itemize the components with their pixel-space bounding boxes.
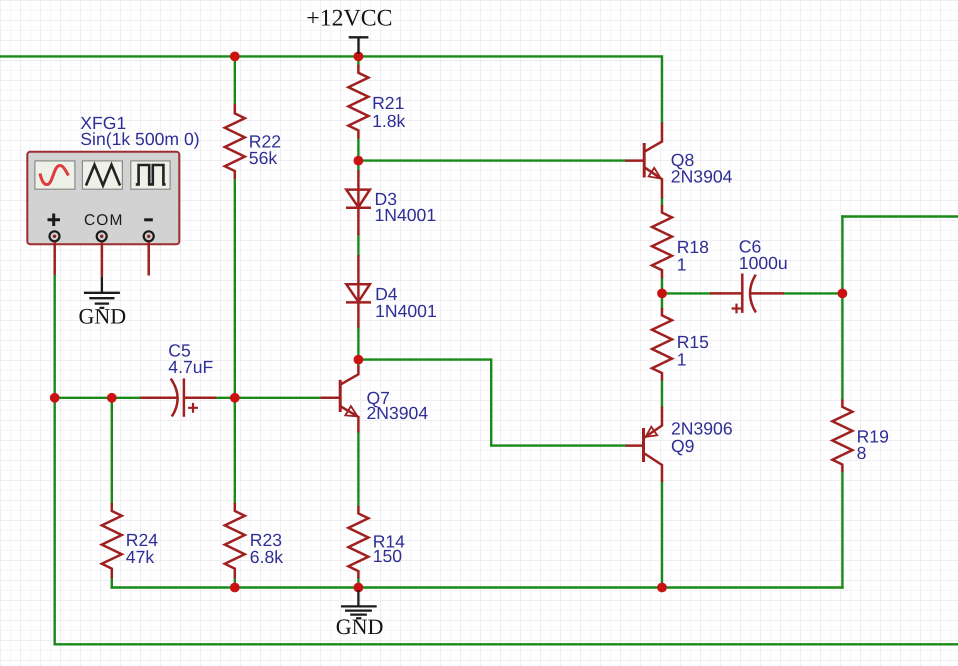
wire R24 bottom corner bbox=[111, 398, 113, 503]
wire D4 cathode to node B bbox=[357, 328, 359, 360]
svg-text:1000u: 1000u bbox=[739, 253, 788, 273]
svg-text:2N3904: 2N3904 bbox=[367, 403, 429, 423]
wire Q7 emitter to R14 bbox=[357, 432, 359, 506]
wire node A to D3 anode bbox=[357, 161, 359, 171]
svg-text:1: 1 bbox=[677, 349, 687, 369]
junction node C bbox=[230, 393, 240, 403]
diode D4 bbox=[357, 255, 360, 302]
wire mid ground rail bbox=[112, 586, 843, 588]
junction node D bbox=[657, 289, 667, 299]
resistor R21 bbox=[348, 65, 368, 139]
wire XFG1 plus lead bbox=[53, 242, 56, 275]
svg-text:1.8k: 1.8k bbox=[372, 111, 405, 131]
transistor Q9 bbox=[626, 407, 662, 482]
resistor R19 bbox=[832, 400, 852, 472]
wire node E output column bbox=[841, 217, 843, 400]
svg-text:4.7uF: 4.7uF bbox=[168, 357, 213, 377]
svg-text:56k: 56k bbox=[249, 148, 278, 168]
svg-text:R21: R21 bbox=[372, 93, 404, 113]
svg-text:Sin(1k 500m 0): Sin(1k 500m 0) bbox=[80, 129, 199, 149]
wire Q7 base to C5 node bbox=[235, 397, 321, 399]
wire node B to Q7 collector bbox=[357, 360, 359, 366]
svg-text:6.8k: 6.8k bbox=[250, 547, 283, 567]
transistor Q8 bbox=[625, 123, 662, 199]
junction R23 bottom bbox=[230, 583, 240, 593]
svg-text:1N4001: 1N4001 bbox=[375, 205, 437, 225]
wire output to right edge bbox=[842, 215, 958, 217]
power +12VCC symbol bbox=[349, 37, 369, 54]
svg-text:COM: COM bbox=[84, 212, 123, 229]
wire node D to R15 bbox=[661, 293, 663, 308]
junction R24 top bbox=[107, 393, 117, 403]
function generator XFG1 bbox=[27, 152, 179, 245]
wire node C to R23 bbox=[234, 398, 236, 503]
wire R24 to mid rail bbox=[111, 579, 113, 588]
wire left drop and bottom rail bbox=[55, 398, 958, 645]
wire R18 to node D bbox=[661, 278, 663, 293]
junction input node bbox=[50, 393, 60, 403]
ground GND bottom symbol bbox=[341, 590, 377, 618]
wire VCC stub to R21 bbox=[357, 56, 359, 64]
capacitor C6 bbox=[710, 274, 784, 314]
svg-text:Q9: Q9 bbox=[671, 436, 694, 456]
resistor R15 bbox=[652, 308, 672, 381]
wire input node to C5 bbox=[55, 397, 141, 399]
svg-text:GND: GND bbox=[79, 304, 127, 329]
svg-text:GND: GND bbox=[336, 614, 384, 639]
resistor R24 bbox=[102, 503, 122, 579]
wire C5 to node C bbox=[216, 397, 235, 399]
svg-text:2N3904: 2N3904 bbox=[671, 167, 733, 187]
capacitor C5 bbox=[140, 378, 216, 416]
resistor R23 bbox=[225, 503, 245, 579]
wire Q9 collector down bbox=[661, 482, 663, 588]
junction R14 bottom bbox=[354, 583, 364, 593]
wire node D to C6 bbox=[662, 292, 710, 294]
junction node E bbox=[838, 289, 848, 299]
wire R21 to node A bbox=[357, 139, 359, 161]
wire C6 to node E bbox=[784, 292, 842, 294]
resistor R18 bbox=[652, 205, 672, 278]
wire XFG1 plus drop bbox=[54, 275, 56, 398]
wire node B to Q9 base bbox=[358, 360, 625, 446]
svg-text:47k: 47k bbox=[126, 547, 155, 567]
wire Q8 emitter to R18 bbox=[661, 198, 663, 205]
resistor R22 bbox=[225, 104, 245, 179]
resistor R14 bbox=[348, 506, 368, 579]
wire VCC top rail bbox=[0, 56, 662, 122]
junction Q9 collector bottom bbox=[657, 583, 667, 593]
wire R22 bottom to node C bbox=[234, 179, 236, 398]
diode D3 bbox=[357, 170, 360, 208]
wire R15 to Q9 emitter bbox=[661, 381, 663, 407]
transistor Q7 bbox=[320, 366, 358, 433]
ground GND under XFG1 symbol bbox=[84, 277, 120, 308]
wire XFG1 minus lead bbox=[147, 242, 150, 276]
junction VCC-R22 bbox=[230, 52, 240, 62]
wire R14 to mid rail bbox=[357, 579, 359, 588]
svg-text:8: 8 bbox=[857, 443, 867, 463]
junction node B bbox=[354, 355, 364, 365]
svg-text:+12VCC: +12VCC bbox=[306, 6, 392, 32]
junction node A bbox=[354, 156, 364, 166]
wire R22 top drop bbox=[234, 56, 236, 103]
svg-text:1N4001: 1N4001 bbox=[375, 301, 437, 321]
wire R23 to mid rail bbox=[234, 579, 236, 588]
svg-text:150: 150 bbox=[373, 546, 403, 566]
wire XFG1 COM lead bbox=[101, 242, 104, 277]
wire R19 bottom corner bbox=[841, 472, 843, 588]
wire node A to Q8 base bbox=[358, 159, 625, 161]
wire D3 cathode to D4 anode bbox=[357, 235, 359, 255]
junction VCC-R21 bbox=[354, 52, 364, 62]
svg-text:1: 1 bbox=[677, 254, 687, 274]
